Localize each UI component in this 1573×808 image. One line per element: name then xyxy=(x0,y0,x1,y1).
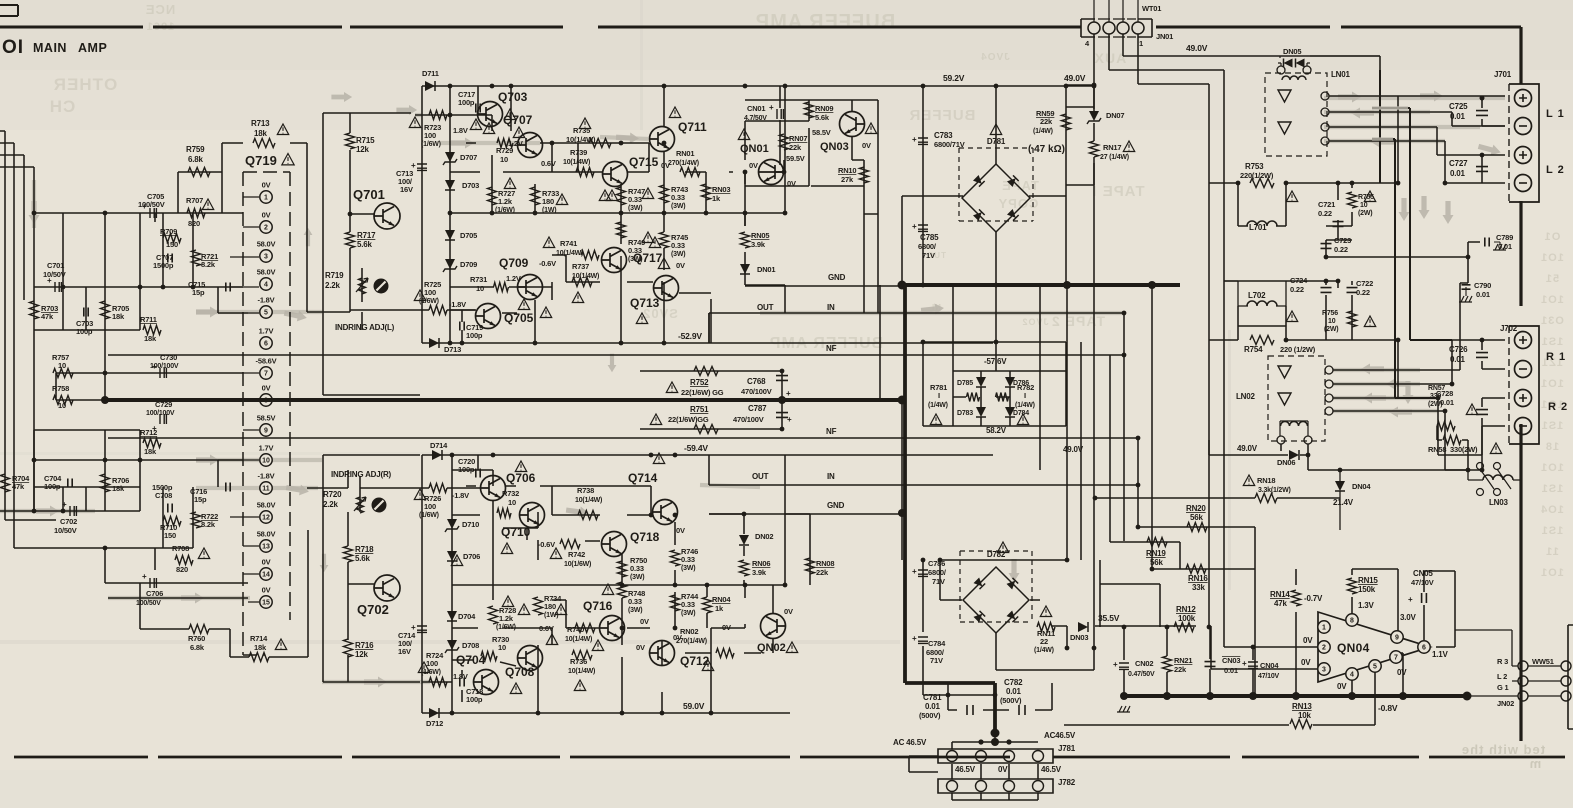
capacitor C717 xyxy=(476,104,480,113)
wire Q702 cell xyxy=(307,455,481,682)
svg-text:49.0V: 49.0V xyxy=(1063,445,1084,454)
transistor Q713 xyxy=(654,276,679,301)
wire misc right drops xyxy=(1195,568,1197,570)
resistor R721 xyxy=(192,250,201,266)
svg-text:C786: C786 xyxy=(928,559,945,568)
capacitor C728 xyxy=(1476,410,1488,415)
svg-text:59.5V: 59.5V xyxy=(786,154,805,163)
svg-text:Q707: Q707 xyxy=(503,113,533,127)
svg-text:21.4V: 21.4V xyxy=(1333,498,1354,507)
svg-text:Q711: Q711 xyxy=(678,120,707,134)
resistor R722 xyxy=(192,512,201,528)
svg-text:1.7V: 1.7V xyxy=(259,444,274,453)
svg-text:L702: L702 xyxy=(1248,291,1266,300)
transistor Q706 xyxy=(481,476,506,501)
svg-text:RN15: RN15 xyxy=(1358,576,1378,585)
resistor R740 xyxy=(575,624,595,633)
resistor R714 xyxy=(249,653,269,662)
svg-text:6800/: 6800/ xyxy=(918,242,937,251)
svg-text:AMP: AMP xyxy=(78,41,107,55)
svg-text:1S1: 1S1 xyxy=(1541,420,1564,432)
resistor R746 xyxy=(671,550,680,566)
svg-text:-1.8V: -1.8V xyxy=(258,296,275,305)
svg-text:CN03: CN03 xyxy=(1222,656,1240,665)
svg-text:L 2: L 2 xyxy=(1546,164,1565,176)
svg-text:RN16: RN16 xyxy=(1188,574,1208,583)
resistor R751 xyxy=(694,425,718,434)
svg-text:(3W): (3W) xyxy=(628,205,642,212)
svg-text:4.7/50V: 4.7/50V xyxy=(744,115,767,122)
svg-text:330(2W): 330(2W) xyxy=(1450,445,1478,454)
svg-text:JN02: JN02 xyxy=(1497,699,1514,708)
svg-text:RN07: RN07 xyxy=(789,134,807,143)
svg-text:C727: C727 xyxy=(1449,159,1468,168)
svg-text:12k: 12k xyxy=(356,145,369,154)
svg-text:DN02: DN02 xyxy=(755,532,773,541)
svg-text:R709: R709 xyxy=(160,227,177,236)
svg-text:(3W): (3W) xyxy=(681,610,695,617)
resistor RN08 xyxy=(806,558,815,574)
svg-text:Q705: Q705 xyxy=(504,311,534,325)
svg-text:46.5V: 46.5V xyxy=(955,765,976,774)
resistor R741 xyxy=(581,251,599,260)
resistor R703 xyxy=(30,301,39,319)
svg-text:C783: C783 xyxy=(934,131,953,140)
svg-text:0V: 0V xyxy=(636,643,645,652)
capacitor C706 xyxy=(150,578,156,588)
resistor R752 xyxy=(694,367,718,376)
capacitor C785 xyxy=(918,225,928,231)
svg-text:820: 820 xyxy=(188,219,200,228)
svg-text:0.33: 0.33 xyxy=(628,597,642,606)
svg-text:0.22: 0.22 xyxy=(1356,288,1370,297)
svg-text:1O4: 1O4 xyxy=(1540,504,1564,516)
svg-text:0V: 0V xyxy=(998,765,1008,774)
svg-text:RN03: RN03 xyxy=(712,185,730,194)
svg-text:0V: 0V xyxy=(262,586,271,595)
svg-text:10/50V: 10/50V xyxy=(43,270,66,279)
resistor R742 xyxy=(560,540,580,549)
bridge rectifier D782 xyxy=(963,567,1029,633)
svg-text:CN01: CN01 xyxy=(747,104,765,113)
capacitor C702 xyxy=(70,506,76,516)
svg-text:+: + xyxy=(1113,660,1118,669)
svg-text:R741: R741 xyxy=(560,239,577,248)
svg-text:15p: 15p xyxy=(192,288,205,297)
svg-text:(1/4W): (1/4W) xyxy=(1034,647,1054,654)
svg-text:100p: 100p xyxy=(458,98,475,107)
svg-text:R718: R718 xyxy=(355,545,374,554)
svg-text:R708: R708 xyxy=(172,544,189,553)
svg-text:C787: C787 xyxy=(748,404,767,413)
svg-text:3.0V: 3.0V xyxy=(1400,613,1417,622)
resistor R718 xyxy=(344,546,353,562)
svg-text:10(1/4W): 10(1/4W) xyxy=(566,135,596,144)
capacitor CN02 xyxy=(1119,663,1129,669)
svg-text:1O1: 1O1 xyxy=(1540,294,1564,306)
svg-text:10: 10 xyxy=(58,401,66,410)
resistor R710 xyxy=(163,517,181,526)
svg-text:33k: 33k xyxy=(1192,583,1205,592)
svg-text:100: 100 xyxy=(424,288,436,297)
svg-text:18: 18 xyxy=(1545,441,1559,453)
node GND bus (thick) xyxy=(902,283,1180,287)
svg-text:DN04: DN04 xyxy=(1352,482,1371,491)
svg-text:LN03: LN03 xyxy=(1489,498,1509,507)
resistor R713 xyxy=(253,139,275,148)
resistor RN07 xyxy=(780,134,789,150)
resistor RN10 xyxy=(860,167,869,183)
svg-text:(1/6W): (1/6W) xyxy=(496,624,516,631)
svg-text:R759: R759 xyxy=(186,145,205,154)
node dot 49V xyxy=(1092,83,1097,88)
svg-text:RN21: RN21 xyxy=(1174,656,1192,665)
svg-text:C726: C726 xyxy=(1449,345,1468,354)
svg-text:JVO4: JVO4 xyxy=(980,52,1010,63)
svg-text:0.33: 0.33 xyxy=(681,600,695,609)
svg-text:NF: NF xyxy=(826,427,837,436)
svg-text:46.5V: 46.5V xyxy=(1041,765,1062,774)
svg-text:MAIN: MAIN xyxy=(33,41,67,55)
svg-text:1.7V: 1.7V xyxy=(259,327,274,336)
svg-text:47k: 47k xyxy=(41,312,54,321)
svg-text:R742: R742 xyxy=(568,550,585,559)
svg-text:10: 10 xyxy=(262,458,270,465)
svg-text:QN02: QN02 xyxy=(757,642,786,654)
wire NF upper xyxy=(108,354,1124,356)
resistor R734 xyxy=(534,597,543,615)
capacitor C729 xyxy=(160,414,166,424)
svg-text:3: 3 xyxy=(1322,667,1326,674)
svg-text:C789: C789 xyxy=(1496,233,1513,242)
resistor R758 xyxy=(53,396,73,405)
wire R-channel feeds xyxy=(1372,70,1452,398)
svg-text:RN58: RN58 xyxy=(1428,445,1446,454)
resistor R739 xyxy=(576,168,594,177)
svg-text:22: 22 xyxy=(1040,637,1048,646)
transistor Q717 xyxy=(602,248,627,273)
connector JN01/WT01 xyxy=(1081,19,1152,37)
resistor R707 xyxy=(187,209,205,218)
svg-text:0.33: 0.33 xyxy=(671,241,685,250)
svg-text:CH: CH xyxy=(49,97,76,116)
svg-text:L701: L701 xyxy=(1249,223,1267,232)
svg-text:RN14: RN14 xyxy=(1270,590,1290,599)
svg-text:J782: J782 xyxy=(1058,778,1076,787)
svg-text:10(1/4W): 10(1/4W) xyxy=(565,636,592,643)
resistor RN09 xyxy=(805,102,814,118)
svg-text:JVO2: JVO2 xyxy=(1021,317,1048,327)
capacitor C725 xyxy=(1476,111,1488,116)
transistor Q703 xyxy=(478,102,503,127)
svg-text:35.5V: 35.5V xyxy=(1098,613,1120,623)
resistor RN59 xyxy=(1062,114,1071,130)
svg-text:58.0V: 58.0V xyxy=(257,240,276,249)
node supply bus vertical (thick) xyxy=(905,285,995,733)
wire 49V to DN06 xyxy=(1209,440,1468,470)
svg-text:10: 10 xyxy=(1360,202,1368,209)
capacitor C723 xyxy=(1321,244,1332,249)
svg-text:DN03: DN03 xyxy=(1070,633,1088,642)
svg-text:1: 1 xyxy=(1139,39,1143,48)
svg-text:O31: O31 xyxy=(1540,315,1564,327)
svg-text:RN12: RN12 xyxy=(1176,605,1196,614)
capacitor C781 xyxy=(967,705,973,715)
wire left input feeds xyxy=(0,131,5,520)
resistor RN16 xyxy=(1186,565,1206,574)
svg-text:+: + xyxy=(912,634,917,643)
svg-text:O1: O1 xyxy=(1544,231,1561,243)
resistor RN12 xyxy=(1174,623,1194,632)
svg-text:1.8V: 1.8V xyxy=(453,126,468,135)
svg-text:3.9k: 3.9k xyxy=(752,568,767,577)
svg-text:0.01: 0.01 xyxy=(1450,169,1466,178)
svg-text:D706: D706 xyxy=(463,552,480,561)
resistor R781 xyxy=(967,393,980,402)
transistor Q704 xyxy=(474,670,499,695)
svg-text:+: + xyxy=(786,389,791,398)
transistor Q712 xyxy=(650,641,675,666)
resistor R728 xyxy=(489,606,498,624)
svg-text:22k: 22k xyxy=(816,568,829,577)
svg-text:15p: 15p xyxy=(194,495,207,504)
svg-text:1S1: 1S1 xyxy=(1541,525,1564,537)
svg-text:DN05: DN05 xyxy=(1283,47,1301,56)
capacitor C786 xyxy=(918,570,928,576)
svg-text:C724: C724 xyxy=(1290,276,1308,285)
svg-text:D704: D704 xyxy=(458,612,476,621)
diode D706 xyxy=(447,551,457,561)
svg-text:BUFFER: BUFFER xyxy=(909,107,976,124)
svg-text:0.33: 0.33 xyxy=(628,195,642,204)
svg-text:100/100V: 100/100V xyxy=(146,410,175,417)
resistor R723 xyxy=(429,111,447,120)
svg-text:+: + xyxy=(1242,659,1247,668)
transistor Q718 xyxy=(602,532,627,557)
signal path overlays (gray) xyxy=(0,509,95,513)
svg-text:22(1/6W) GG: 22(1/6W) GG xyxy=(681,388,724,397)
wire lower amp mesh xyxy=(422,455,810,713)
svg-text:100p: 100p xyxy=(458,465,475,474)
capacitor CN03 xyxy=(1205,662,1216,667)
svg-text:10k: 10k xyxy=(1298,711,1311,720)
svg-text:(500V): (500V) xyxy=(1000,696,1022,705)
svg-text:R715: R715 xyxy=(356,136,375,145)
svg-text:100: 100 xyxy=(424,502,436,511)
svg-text:0V: 0V xyxy=(676,526,685,535)
svg-text:(2W): (2W) xyxy=(1428,401,1442,408)
svg-text:-0.6V: -0.6V xyxy=(539,259,556,268)
svg-text:G 1: G 1 xyxy=(1497,683,1509,692)
capacitor C783 xyxy=(918,138,928,144)
resistor R745 xyxy=(660,232,669,248)
resistor R744 xyxy=(671,595,680,611)
svg-text:0V: 0V xyxy=(262,181,271,190)
svg-text:10(1/4W): 10(1/4W) xyxy=(572,273,599,280)
svg-text:CN05: CN05 xyxy=(1413,569,1433,578)
svg-text:(1/4W): (1/4W) xyxy=(1033,128,1053,135)
wire out-filter L mesh xyxy=(1209,96,1480,398)
svg-text:0V: 0V xyxy=(862,141,871,150)
diode D708 (zener) xyxy=(447,640,457,650)
wire GND thin stub xyxy=(745,214,1081,560)
resistor RN58 xyxy=(1443,436,1461,445)
svg-text:C706: C706 xyxy=(146,589,163,598)
transistor Q705 xyxy=(476,304,501,329)
svg-text:18k: 18k xyxy=(254,643,267,652)
svg-text:18k: 18k xyxy=(254,129,267,138)
svg-text:18k: 18k xyxy=(112,312,125,321)
connector J781 xyxy=(938,749,1053,763)
svg-text:Q708: Q708 xyxy=(505,665,535,679)
svg-text:220 (1/2W): 220 (1/2W) xyxy=(1280,345,1316,354)
svg-text:J781: J781 xyxy=(1058,744,1076,753)
svg-text:18k: 18k xyxy=(144,334,157,343)
svg-text:D784: D784 xyxy=(1013,410,1029,417)
transistor Q715 xyxy=(603,162,628,187)
bridge rectifier D781 xyxy=(962,164,1030,232)
diode DN02 xyxy=(739,535,749,545)
svg-text:270(1/4W): 270(1/4W) xyxy=(676,638,707,645)
svg-text:BUFFER AMP: BUFFER AMP xyxy=(755,11,895,33)
svg-text:5: 5 xyxy=(1373,664,1377,671)
svg-text:1500p: 1500p xyxy=(153,261,174,270)
svg-text:D705: D705 xyxy=(460,231,477,240)
svg-text:0.22: 0.22 xyxy=(1318,209,1332,218)
svg-text:D713: D713 xyxy=(444,345,461,354)
svg-text:C722: C722 xyxy=(1356,279,1373,288)
resistor RN05 xyxy=(741,232,750,248)
capacitor C787 xyxy=(776,413,788,418)
svg-text:150: 150 xyxy=(164,531,176,540)
svg-text:RN18: RN18 xyxy=(1257,476,1275,485)
svg-text:DN01: DN01 xyxy=(757,265,775,274)
svg-text:71V: 71V xyxy=(932,577,945,586)
svg-text:Q719: Q719 xyxy=(245,153,277,168)
svg-text:1O1: 1O1 xyxy=(1540,462,1564,474)
svg-text:ted with the: ted with the xyxy=(1461,742,1545,757)
svg-text:9: 9 xyxy=(264,428,268,435)
svg-text:RN04: RN04 xyxy=(712,595,731,604)
svg-text:(500V): (500V) xyxy=(919,711,941,720)
svg-text:I: I xyxy=(1024,391,1026,400)
node dots misc xyxy=(448,84,453,89)
wire -59.4V rail xyxy=(422,454,993,456)
relay LN01 (dashed box) xyxy=(1265,73,1327,156)
svg-text:47/10V: 47/10V xyxy=(1258,673,1280,680)
connector J782 xyxy=(938,779,1053,793)
svg-text:C785: C785 xyxy=(920,233,939,242)
svg-text:3.9k: 3.9k xyxy=(751,240,766,249)
svg-text:6.8k: 6.8k xyxy=(188,155,204,164)
svg-text:R737: R737 xyxy=(572,262,589,271)
svg-text:49.0V: 49.0V xyxy=(1186,43,1208,53)
trimmer R719 xyxy=(374,279,389,294)
svg-text:47k: 47k xyxy=(12,482,25,491)
transistor QN03 xyxy=(840,112,865,137)
svg-text:CN04: CN04 xyxy=(1260,661,1279,670)
resistor R733 xyxy=(531,187,540,205)
capacitor C719 xyxy=(460,322,464,331)
svg-text:22k: 22k xyxy=(1174,665,1187,674)
svg-text:1: 1 xyxy=(264,195,268,202)
resistor R747 xyxy=(617,187,626,205)
svg-text:1S1: 1S1 xyxy=(1541,336,1564,348)
svg-text:C782: C782 xyxy=(1004,678,1023,687)
svg-text:R739: R739 xyxy=(570,148,587,157)
svg-text:C701: C701 xyxy=(47,261,64,270)
svg-text:1O1: 1O1 xyxy=(1540,567,1564,579)
svg-text:QN01: QN01 xyxy=(740,143,769,155)
svg-text:INDRING ADJ(L): INDRING ADJ(L) xyxy=(335,323,395,332)
diode D703 xyxy=(445,180,455,190)
svg-text:D707: D707 xyxy=(460,153,477,162)
svg-text:71V: 71V xyxy=(930,656,943,665)
relay LN02 (dashed box) xyxy=(1268,356,1325,441)
junction dots left network xyxy=(102,397,109,404)
svg-text:0.01: 0.01 xyxy=(1476,290,1490,299)
svg-text:R717: R717 xyxy=(357,231,376,240)
transistor Q716 xyxy=(600,616,625,641)
op-amp QN04 xyxy=(1318,612,1430,682)
resistor R727 xyxy=(488,187,497,205)
svg-text:-57.6V: -57.6V xyxy=(984,357,1007,366)
svg-text:100/100V: 100/100V xyxy=(150,363,179,370)
svg-text:OI: OI xyxy=(2,37,24,58)
svg-text:8.2k: 8.2k xyxy=(201,520,216,529)
capacitor C715 xyxy=(226,283,230,292)
relay LN01 contacts xyxy=(1278,90,1291,134)
svg-text:D714: D714 xyxy=(430,441,448,450)
diode D785 xyxy=(976,377,986,387)
svg-text:58.0V: 58.0V xyxy=(257,530,276,539)
resistor R748 xyxy=(618,582,627,598)
svg-text:0.33: 0.33 xyxy=(681,555,695,564)
svg-text:1.2V: 1.2V xyxy=(506,274,521,283)
svg-text:RN01: RN01 xyxy=(676,149,694,158)
diode DN07 (zener) xyxy=(1089,111,1099,121)
wire QN01/QN03 mesh xyxy=(745,86,878,313)
svg-text:JN01: JN01 xyxy=(1156,32,1173,41)
wire R759/R713 feedback xyxy=(178,143,307,312)
svg-text:59.0V: 59.0V xyxy=(683,701,705,711)
svg-text:OTHER: OTHER xyxy=(53,75,118,94)
svg-text:5.6k: 5.6k xyxy=(355,554,371,563)
diode D783 xyxy=(976,407,986,417)
resistor R729 xyxy=(497,139,513,148)
svg-text:10: 10 xyxy=(58,361,66,370)
wire left RC mesh xyxy=(0,213,248,598)
svg-text:R758: R758 xyxy=(52,384,69,393)
svg-text:100p: 100p xyxy=(466,331,483,340)
svg-text:0V: 0V xyxy=(787,179,796,188)
svg-text:R736: R736 xyxy=(570,657,587,666)
diode D786 xyxy=(1005,377,1015,387)
svg-text:820: 820 xyxy=(176,565,188,574)
resistor RN03 xyxy=(702,184,711,200)
svg-text:2.2k: 2.2k xyxy=(325,281,341,290)
svg-text:Q717: Q717 xyxy=(633,251,663,265)
svg-text:18k: 18k xyxy=(112,484,125,493)
capacitor C727 xyxy=(1476,167,1488,172)
svg-text:Q701: Q701 xyxy=(353,187,385,202)
svg-text:10: 10 xyxy=(1328,318,1336,325)
svg-text:NF: NF xyxy=(826,344,837,353)
svg-text:11: 11 xyxy=(262,486,270,493)
resistor R757 xyxy=(53,369,73,378)
svg-text:0.01: 0.01 xyxy=(1006,687,1022,696)
svg-text:OUT: OUT xyxy=(757,303,774,312)
